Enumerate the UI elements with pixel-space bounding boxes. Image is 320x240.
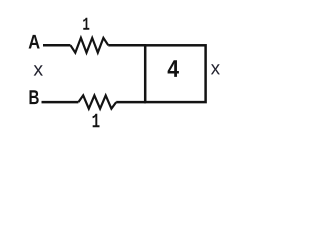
label 4 (box value) xyxy=(168,60,179,77)
port label x (left) xyxy=(34,65,43,75)
component box (value 4) xyxy=(145,45,205,102)
node A xyxy=(29,35,40,49)
label 1 (R1 value) xyxy=(83,18,89,30)
wire R2 to box xyxy=(116,101,146,104)
label 1 (R2 value) xyxy=(93,114,100,127)
wire A to R1 xyxy=(43,44,71,47)
wire B to R2 xyxy=(42,101,79,104)
wire R1 to box xyxy=(108,44,146,47)
resistor R1 value 1 (top) xyxy=(71,38,109,53)
node B xyxy=(30,90,39,104)
resistor R2 value 1 (bottom) xyxy=(78,95,116,108)
port label x (right) xyxy=(211,64,220,74)
